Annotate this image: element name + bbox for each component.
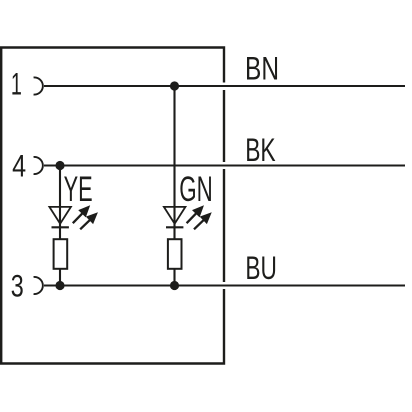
svg-text:YE: YE — [64, 170, 93, 209]
LED V2 light arrows — [187, 207, 210, 229]
junction dot pin3/YE — [55, 281, 64, 290]
pin 3 socket contact — [34, 277, 43, 294]
wire BK (pin 4) — [44, 164, 405, 166]
connector body outline — [1, 48, 224, 364]
LED V2 (green) — [164, 207, 186, 227]
wire GN branch vertical — [173, 86, 175, 286]
junction dot pin1/GN — [170, 81, 179, 90]
svg-text:BK: BK — [245, 131, 276, 168]
svg-text:4: 4 — [12, 148, 26, 184]
wire BU (pin 3) — [44, 284, 405, 286]
pin 4 socket contact — [34, 157, 43, 174]
resistor R2 — [168, 239, 182, 269]
junction dot pin4/YE — [55, 161, 64, 170]
svg-text:GN: GN — [179, 170, 213, 209]
pin 1 socket contact — [34, 77, 43, 94]
LED V1 (yellow) — [49, 207, 71, 227]
wire BN (pin 1) — [44, 85, 405, 87]
junction dot pin3/GN — [170, 281, 179, 290]
svg-text:1: 1 — [11, 66, 22, 102]
wire YE branch vertical — [59, 166, 61, 286]
svg-text:BU: BU — [245, 249, 277, 286]
LED V1 light arrows — [73, 207, 96, 229]
svg-text:3: 3 — [11, 268, 24, 304]
svg-text:BN: BN — [245, 50, 279, 87]
resistor R1 — [54, 239, 68, 269]
